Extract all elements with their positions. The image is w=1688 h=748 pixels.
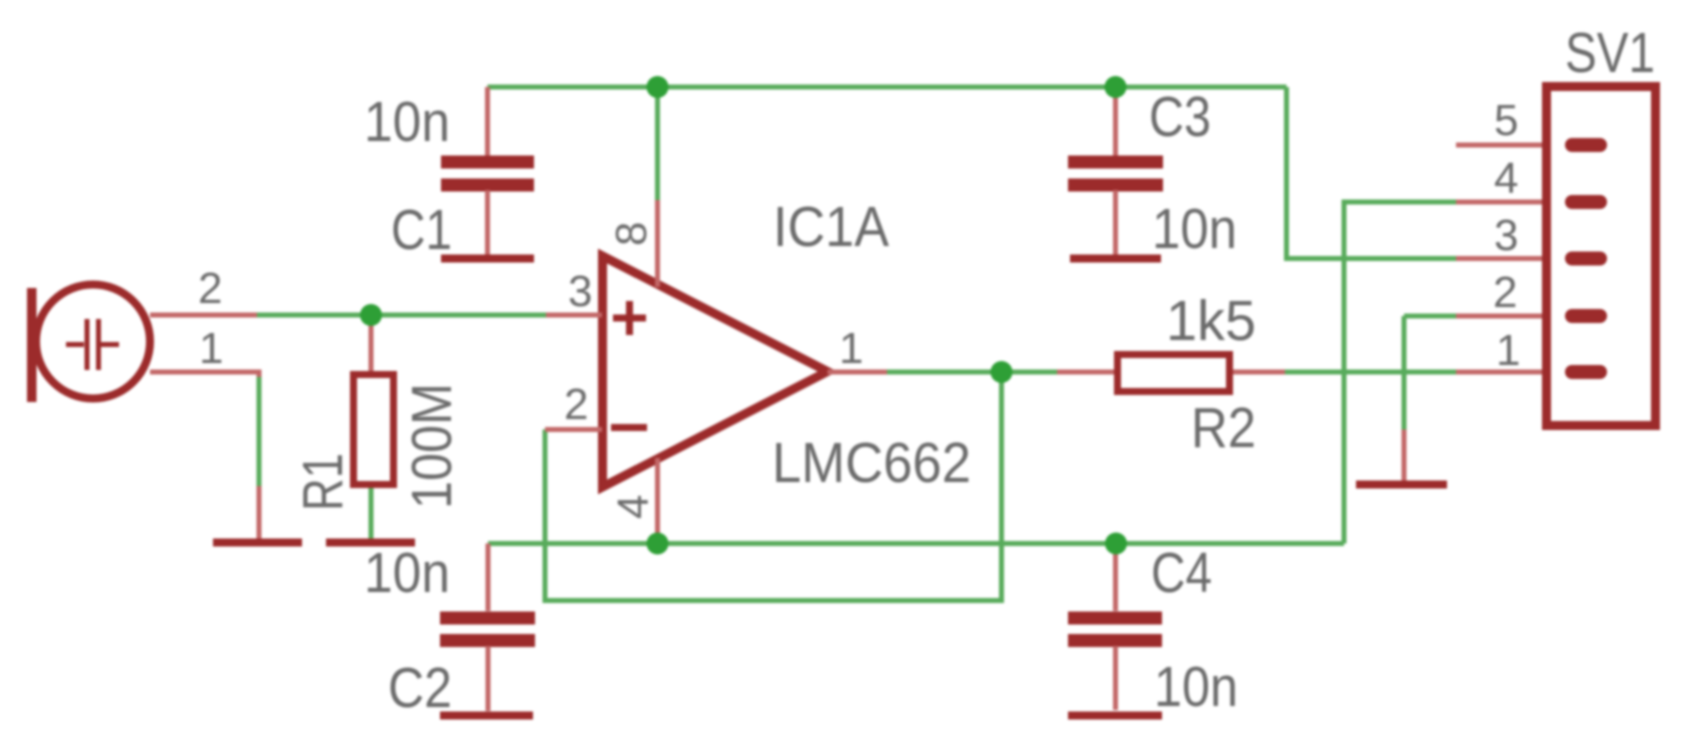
node junction V- rail / pin4	[647, 533, 669, 555]
svg-text:C2: C2	[388, 656, 452, 720]
microphone MIC1	[27, 285, 259, 403]
svg-text:SV1: SV1	[1565, 21, 1655, 85]
node junction top rail / pin8	[647, 76, 669, 98]
wire R1 bottom to ground	[369, 487, 374, 540]
resistor R1	[354, 315, 394, 485]
wire pin8 to top rail	[655, 87, 660, 200]
node junction V- rail / C4	[1105, 533, 1127, 555]
svg-text:8: 8	[607, 222, 656, 246]
capacitor C1	[441, 87, 534, 255]
wire mic pin2 to op-amp pin3	[257, 313, 546, 318]
wire op-amp output to R2	[887, 370, 1057, 375]
resistor R2	[1057, 355, 1285, 392]
svg-text:4: 4	[609, 495, 658, 519]
capacitor C2	[440, 544, 535, 712]
ground mic pin1	[213, 486, 302, 543]
svg-text:R2: R2	[1191, 396, 1256, 460]
svg-text:R1: R1	[291, 453, 355, 511]
wire SV1 pin2 to ground drop	[1404, 316, 1456, 430]
svg-text:1k5: 1k5	[1166, 289, 1256, 353]
connector SV1	[1456, 87, 1656, 426]
wire V+ down to SV1 pin3	[1287, 87, 1457, 259]
wire feedback output to inverting input	[545, 372, 1002, 601]
node junction mic / R1	[360, 304, 382, 326]
wire V- rail pin4	[488, 541, 1344, 546]
node junction output	[991, 361, 1013, 383]
ground SV1 pin2	[1356, 430, 1447, 485]
ground C2	[440, 712, 533, 720]
svg-text:1: 1	[1496, 326, 1520, 375]
wire mic pin1 drop to ground	[257, 377, 262, 486]
capacitor C3	[1068, 87, 1163, 255]
svg-text:3: 3	[1494, 211, 1518, 260]
svg-text:C1: C1	[391, 198, 452, 262]
svg-text:10n: 10n	[364, 541, 450, 605]
svg-text:5: 5	[1494, 96, 1518, 145]
svg-text:2: 2	[1493, 268, 1517, 317]
svg-text:LMC662: LMC662	[772, 431, 971, 495]
wire R2 to SV1 pin1	[1285, 370, 1456, 375]
op-amp U1 IC1A	[545, 200, 887, 544]
node junction top rail / C3	[1105, 76, 1127, 98]
ground R1	[326, 539, 415, 547]
svg-text:4: 4	[1494, 154, 1518, 203]
svg-text:1: 1	[839, 324, 863, 373]
svg-text:1: 1	[199, 324, 223, 373]
svg-text:2: 2	[198, 264, 222, 313]
svg-text:10n: 10n	[364, 90, 450, 154]
svg-text:10n: 10n	[1152, 197, 1237, 261]
svg-text:100M: 100M	[400, 383, 464, 509]
wire top rail net V+	[488, 85, 1287, 90]
ground C1	[441, 255, 534, 263]
svg-text:C3: C3	[1149, 85, 1211, 149]
svg-text:C4: C4	[1151, 541, 1212, 605]
wire V- rail up to SV1 pin4	[1344, 202, 1456, 544]
svg-text:2: 2	[564, 380, 588, 429]
ground C3	[1070, 255, 1161, 263]
capacitor C4	[1068, 544, 1162, 711]
svg-text:3: 3	[568, 267, 592, 316]
ground C4	[1068, 712, 1162, 720]
svg-text:10n: 10n	[1154, 655, 1238, 719]
svg-text:IC1A: IC1A	[773, 195, 889, 259]
